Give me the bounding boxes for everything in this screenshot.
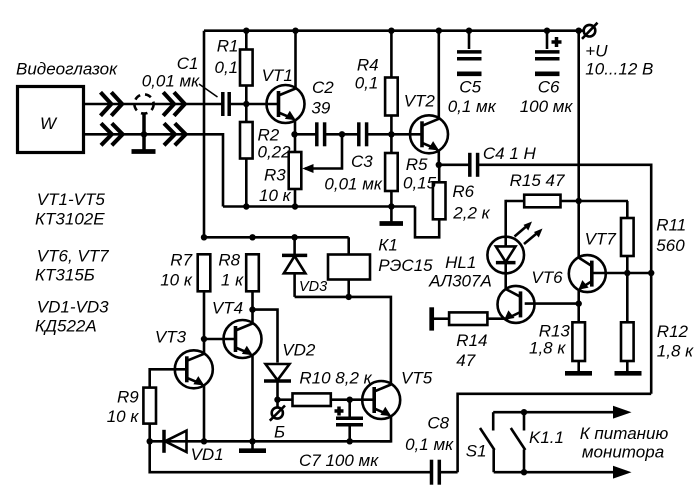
- label C4 value: [483, 144, 537, 163]
- svg-text:АЛ307А: АЛ307А: [428, 272, 492, 291]
- wire feedback to R3 with arrow: [302, 134, 342, 173]
- label K1.1: [529, 428, 564, 447]
- wire VT5 base lead: [350, 398, 375, 401]
- svg-text:R12: R12: [657, 322, 689, 341]
- resistor R11: [621, 218, 634, 273]
- node VT4 base tap: [201, 336, 207, 342]
- wire down to bottom rail: [150, 441, 431, 472]
- ground bar under R12: [615, 371, 642, 376]
- label R6 value: [452, 182, 490, 223]
- wire R11 top elbow: [626, 201, 629, 218]
- ground bar under R13: [565, 371, 592, 376]
- wire VT7 base line: [592, 272, 651, 275]
- svg-text:0,1 мк: 0,1 мк: [448, 97, 497, 116]
- resistor R3 trimmed: [289, 134, 302, 206]
- svg-text:W: W: [40, 114, 58, 133]
- label R3 value: [259, 166, 292, 206]
- capacitor C7 polarized: [335, 400, 364, 442]
- resistor R12: [621, 273, 634, 372]
- label K1 РЭС15: [378, 236, 433, 275]
- label VD1-VD3 КД522А: [35, 298, 109, 336]
- label VT6: [531, 268, 563, 287]
- label VT1: [262, 66, 293, 85]
- node shield-bottom wire junction: [141, 131, 147, 137]
- label VD2: [282, 341, 316, 360]
- svg-text:100 мк: 100 мк: [520, 97, 574, 116]
- node K1.1 top: [521, 409, 527, 415]
- label R13 value: [529, 321, 570, 357]
- node VT3 emitter bottom: [201, 438, 207, 444]
- node C5 rail: [466, 28, 472, 34]
- svg-text:КД522А: КД522А: [35, 317, 97, 336]
- svg-text:0,1 мк: 0,1 мк: [405, 435, 454, 454]
- wire VT4 base: [204, 338, 236, 341]
- wire top +U rail: [204, 29, 584, 32]
- svg-text:VT2: VT2: [404, 92, 436, 111]
- node VT7 emitter VT6 base R13: [576, 300, 582, 306]
- terminal bar R14 left: [429, 307, 434, 330]
- svg-text:VD1-VD3: VD1-VD3: [37, 298, 109, 317]
- label C7 value: [299, 451, 379, 470]
- svg-text:Б: Б: [274, 423, 285, 442]
- svg-text:R15 47: R15 47: [510, 171, 565, 190]
- node R11 R12 VT7 base: [624, 270, 630, 276]
- wire VT4 emitter down: [251, 354, 254, 441]
- svg-text:РЭС15: РЭС15: [378, 256, 433, 275]
- label R5 value: [403, 155, 437, 193]
- node K1.1 bottom: [521, 469, 527, 475]
- connector dashed circle X1: [134, 94, 153, 113]
- label C1 value: [142, 54, 200, 91]
- resistor R14: [434, 312, 488, 325]
- node VT4 emitter bottom: [249, 438, 255, 444]
- diode VD2: [264, 364, 291, 400]
- wire elbow to VD2: [253, 310, 278, 363]
- label VD3: [299, 279, 327, 295]
- node VD2 tap on VT4 collector: [249, 306, 255, 312]
- wire +U right vertical drop: [577, 31, 580, 258]
- label К питанию монитора: [580, 424, 669, 462]
- node left feed R7: [201, 234, 207, 240]
- svg-text:К1: К1: [378, 236, 397, 255]
- capacitor C4: [439, 153, 478, 177]
- svg-text:2,2 к: 2,2 к: [452, 204, 490, 223]
- label C2 value: [311, 78, 334, 117]
- resistor R8: [246, 254, 259, 324]
- svg-text:R6: R6: [452, 182, 474, 201]
- wire HL1 top to R15: [504, 201, 507, 237]
- resistor R7: [198, 254, 211, 354]
- svg-text:0,01 мк: 0,01 мк: [142, 72, 200, 91]
- wire VT2 emitter down: [437, 149, 440, 164]
- node VT2 base R4 R5: [388, 131, 394, 137]
- resistor R15: [524, 195, 560, 208]
- wire VT3 base to R9: [150, 369, 187, 387]
- wire VT7 emitter down: [577, 289, 580, 322]
- ground bar under C6: [535, 71, 560, 76]
- svg-text:R11: R11: [656, 216, 686, 235]
- svg-text:0,01 мк: 0,01 мк: [324, 175, 382, 194]
- node R1 top rail: [243, 28, 249, 34]
- svg-text:монитора: монитора: [582, 443, 664, 462]
- label HL1 АЛ307А: [428, 253, 492, 291]
- svg-text:C8: C8: [427, 414, 449, 433]
- label VD1: [191, 445, 224, 464]
- label VT1-VT5 КТ3102Е: [35, 190, 105, 229]
- node right vertical join: [648, 270, 654, 276]
- svg-text:560: 560: [656, 236, 685, 255]
- wire bottom video line from sensor: [84, 134, 224, 206]
- node VD2 R10 B junction: [274, 397, 280, 403]
- svg-text:10 к: 10 к: [107, 407, 140, 426]
- label R11 value: [656, 216, 686, 256]
- callout line C1 label: [199, 84, 218, 97]
- wire VT1 emitter down: [294, 119, 297, 134]
- resistor R2: [240, 104, 253, 207]
- svg-text:VT7: VT7: [585, 229, 617, 248]
- transistor VT3: [175, 350, 213, 388]
- svg-text:C3: C3: [351, 152, 373, 171]
- capacitor C3: [359, 122, 422, 146]
- svg-text:VT6: VT6: [531, 268, 563, 287]
- svg-text:10 к: 10 к: [259, 186, 292, 205]
- transistor VT7 rotated: [569, 255, 606, 292]
- label R1 value: [215, 37, 239, 78]
- resistor R13: [572, 322, 585, 371]
- LED HL1: [487, 237, 524, 274]
- svg-text:R1: R1: [217, 37, 239, 56]
- svg-text:K1.1: K1.1: [529, 428, 564, 447]
- wire VT2 collector to rail: [437, 31, 440, 119]
- ground bar under C5: [457, 71, 482, 76]
- wire C8 up to detector node: [458, 394, 652, 472]
- svg-text:0,1: 0,1: [355, 73, 379, 92]
- resistor R6: [433, 165, 446, 220]
- diode VD3: [282, 237, 307, 297]
- resistor R4: [385, 31, 398, 135]
- ground symbol below R5: [380, 207, 404, 224]
- wire VT5 emitter corner: [380, 415, 391, 441]
- capacitor C8: [432, 460, 458, 485]
- wire relay bottom to VT5 collector: [295, 297, 391, 385]
- node VT1 emitter: [291, 131, 297, 137]
- capacitor C6 polarized: [535, 31, 562, 59]
- label R10 value: [299, 369, 372, 388]
- connector chevrons bottom pair 2: [164, 123, 186, 145]
- label C5 value: [448, 78, 497, 116]
- label +U supply: [585, 42, 653, 79]
- resistor R10: [278, 393, 350, 406]
- node VT1 base / C1: [243, 101, 249, 107]
- node +U drop: [576, 28, 582, 34]
- capacitor C1: [223, 92, 279, 116]
- transistor VT6 rotated: [498, 286, 535, 323]
- svg-text:C4 1 Н: C4 1 Н: [483, 144, 537, 163]
- label Видеоглазок: [16, 60, 118, 79]
- label Б: [274, 423, 285, 442]
- label R12 value: [657, 322, 694, 361]
- svg-text:47: 47: [456, 351, 475, 370]
- label VT4: [212, 299, 243, 318]
- label R14 value: [456, 331, 487, 370]
- transistor VT5: [362, 381, 400, 419]
- svg-text:VD3: VD3: [299, 279, 327, 295]
- svg-text:Видеоглазок: Видеоглазок: [16, 60, 118, 79]
- label VT2: [404, 92, 436, 111]
- wire switch top rail with arrow: [493, 406, 631, 419]
- svg-text:0,15: 0,15: [403, 174, 437, 193]
- relay coil K1: [328, 237, 370, 297]
- node R4 top rail: [388, 28, 394, 34]
- svg-text:VT3: VT3: [155, 328, 187, 347]
- label VT6, VT7 КТ315Б: [35, 247, 109, 285]
- label R9 value: [107, 387, 140, 426]
- shield bar: [132, 149, 156, 154]
- wire VT6 base line: [525, 302, 579, 305]
- connector chevrons top pair 2: [163, 92, 185, 116]
- label C6 value: [520, 78, 574, 116]
- svg-text:R7: R7: [170, 251, 192, 270]
- label R8 value: [218, 251, 244, 290]
- diode VD1: [164, 430, 187, 453]
- svg-text:+U: +U: [585, 42, 608, 61]
- ground symbol below VT4 emitter: [239, 441, 266, 450]
- svg-text:VT6, VT7: VT6, VT7: [37, 247, 109, 266]
- svg-text:1,8 к: 1,8 к: [529, 338, 566, 357]
- svg-text:0,22: 0,22: [258, 143, 292, 162]
- wire VT6 emitter to R14: [487, 317, 505, 320]
- label VT3: [155, 328, 187, 347]
- node R3 bottom rail: [292, 203, 298, 209]
- transistor VT4: [224, 320, 262, 358]
- power terminal +U: [582, 23, 598, 39]
- label R7 value: [160, 251, 193, 290]
- wire top video line from sensor: [84, 103, 222, 106]
- wire VT3 emitter down: [203, 384, 206, 441]
- svg-text:R14: R14: [456, 331, 487, 350]
- svg-text:39: 39: [311, 98, 330, 117]
- wire VT6 collector up to LED: [504, 273, 507, 289]
- svg-text:C1: C1: [177, 54, 199, 73]
- svg-text:10...12 В: 10...12 В: [585, 60, 653, 79]
- resistor R9: [143, 388, 156, 442]
- svg-text:R10 8,2 к: R10 8,2 к: [299, 369, 372, 388]
- capacitor C5: [457, 31, 482, 59]
- svg-text:C6: C6: [538, 78, 560, 97]
- node R5 bottom rail: [388, 203, 394, 209]
- switch S1: [480, 412, 495, 472]
- wire emitter common rail: [150, 440, 391, 443]
- svg-text:VT1: VT1: [262, 66, 293, 85]
- node relay bottom: [346, 294, 352, 300]
- node VD3 top: [291, 234, 297, 240]
- svg-text:С7 100 мк: С7 100 мк: [299, 451, 379, 470]
- svg-text:0,1: 0,1: [215, 58, 239, 77]
- svg-text:VT1-VT5: VT1-VT5: [37, 190, 106, 209]
- label VT7: [585, 229, 617, 248]
- connector chevrons top pair 1: [101, 92, 123, 116]
- transistor VT1: [267, 85, 305, 123]
- label VT5: [401, 369, 433, 388]
- node C7 bottom: [347, 438, 353, 444]
- svg-text:VT5: VT5: [401, 369, 433, 388]
- sensor box W (video peephole): [18, 87, 84, 153]
- svg-text:1 к: 1 к: [221, 270, 244, 289]
- svg-text:1,8 к: 1,8 к: [657, 342, 694, 361]
- wire R15 node rail: [506, 200, 628, 203]
- svg-text:КТ3102Е: КТ3102Е: [35, 210, 105, 229]
- wire rail jog to R6: [415, 207, 439, 238]
- resistor R5: [385, 134, 398, 206]
- svg-text:C5: C5: [459, 78, 481, 97]
- svg-text:S1: S1: [466, 442, 487, 461]
- wire analog ground rail: [223, 205, 415, 208]
- LED arrows: [515, 222, 543, 245]
- node VT1 collector rail: [292, 28, 298, 34]
- svg-text:К питанию: К питанию: [580, 424, 669, 443]
- svg-text:VD1: VD1: [191, 445, 224, 464]
- svg-text:R4: R4: [357, 56, 379, 75]
- wire switch bottom rail with arrow: [494, 466, 632, 479]
- label S1: [466, 442, 487, 461]
- svg-text:VD2: VD2: [282, 341, 316, 360]
- svg-text:C2: C2: [312, 78, 334, 97]
- label C3 value: [324, 152, 382, 194]
- shield stem wire: [142, 114, 146, 151]
- node +U drop R15: [576, 198, 582, 204]
- wire C4 to right vertical: [479, 165, 652, 394]
- node R10 C7 VT5 base: [347, 397, 353, 403]
- terminal B: [270, 400, 285, 421]
- svg-text:R5: R5: [406, 155, 428, 174]
- node C6 rail: [544, 28, 550, 34]
- wire R7 R8 VD3 relay rail: [204, 236, 349, 239]
- label C8 value: [405, 414, 454, 454]
- wire emitter node to C2: [295, 133, 317, 136]
- svg-text:КТ315Б: КТ315Б: [35, 266, 95, 285]
- svg-text:R3: R3: [264, 166, 286, 185]
- switch contact K1.1: [511, 412, 526, 472]
- svg-text:VT4: VT4: [212, 299, 243, 318]
- node R8 top: [249, 234, 255, 240]
- label R15 value: [510, 171, 565, 190]
- label W: [40, 114, 58, 133]
- node VT2 emitter C4 R6: [436, 162, 442, 168]
- node VT2 collector rail: [436, 28, 442, 34]
- transistor VT2: [410, 115, 448, 153]
- wire VT1 collector to rail: [294, 31, 297, 89]
- capacitor C2: [317, 122, 358, 146]
- node R9 VD1 corner: [147, 438, 153, 444]
- node C2 C3 junction: [339, 131, 345, 137]
- label R4 value: [355, 56, 379, 93]
- svg-text:HL1: HL1: [445, 253, 476, 272]
- svg-text:R8: R8: [218, 251, 240, 270]
- connector chevrons bottom pair 1: [101, 123, 123, 145]
- svg-text:R9: R9: [117, 387, 139, 406]
- node R2 bottom rail: [243, 203, 249, 209]
- wire left vertical feed: [203, 31, 206, 238]
- svg-text:10 к: 10 к: [160, 270, 193, 289]
- resistor R1: [240, 31, 253, 104]
- label R2 value: [258, 126, 292, 162]
